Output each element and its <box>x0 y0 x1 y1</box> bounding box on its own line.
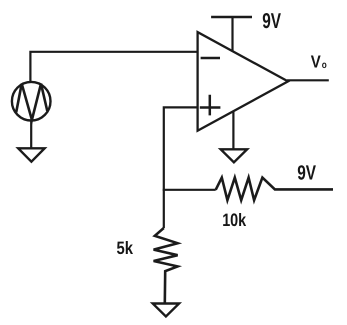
svg-text:10k: 10k <box>222 210 247 230</box>
svg-text:9V: 9V <box>262 9 281 33</box>
svg-text:9V: 9V <box>297 162 316 185</box>
svg-text:5k: 5k <box>117 238 134 258</box>
svg-text:o: o <box>322 60 327 71</box>
svg-text:V: V <box>311 52 321 72</box>
